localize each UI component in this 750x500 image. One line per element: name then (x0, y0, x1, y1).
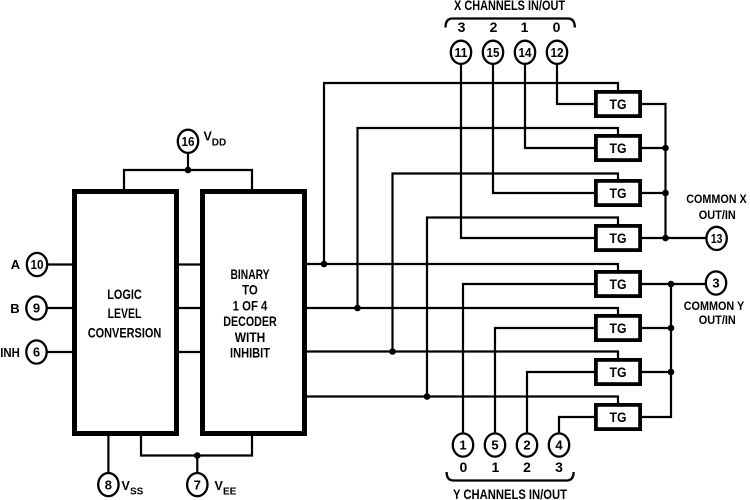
svg-text:TG: TG (610, 96, 627, 112)
wire: X bus segment (664, 193, 666, 238)
power VSS pin 8 (98, 473, 118, 496)
transmission gate TG8 (596, 405, 640, 429)
svg-text:7: 7 (194, 477, 201, 492)
wire: TG2 output stub (642, 147, 666, 149)
svg-text:0: 0 (460, 459, 468, 475)
power VDD pin 16 (178, 130, 198, 153)
wire: pin 4 to TG input (559, 417, 594, 434)
junction: decoder output 3 branch (424, 393, 431, 400)
junction: Y bus at TG7 (668, 369, 675, 376)
wire: logic block to decoder (A level) (179, 263, 200, 265)
wire: branch decoder output 3 up to X TG4 control (427, 218, 618, 397)
wire: TG5 output to pin 3 (642, 283, 706, 285)
svg-text:BINARY: BINARY (231, 266, 270, 282)
svg-text:2: 2 (523, 438, 530, 453)
wire: TG4 output stub (642, 237, 666, 239)
pin 15 (X channel) (483, 41, 503, 64)
wire: VEE rail stub to pin 7 (196, 456, 198, 474)
wire: pin 12 to TG input (557, 64, 594, 104)
transmission gate TG1 (596, 92, 640, 116)
junction: X bus at TG3 (662, 190, 669, 197)
wire: TG1 output to X bus (642, 104, 666, 148)
pin 11 (X channel) (451, 41, 471, 64)
svg-text:COMMON Y: COMMON Y (684, 299, 745, 313)
svg-text:WITH: WITH (235, 329, 266, 345)
wire: pin 2 to TG input (527, 372, 594, 434)
svg-text:1: 1 (521, 19, 529, 35)
wire: TG7 output stub (642, 371, 671, 373)
wire: TG6 output stub (642, 327, 671, 329)
wire: branch decoder output 1 up to X TG2 control (358, 128, 619, 308)
wire: pin 15 to TG input (493, 64, 594, 193)
svg-text:TG: TG (610, 364, 627, 380)
pin 13 (COMMON X) (706, 227, 726, 250)
transmission gate TG4 (596, 226, 640, 250)
wire: logic block to decoder (INH level) (179, 351, 200, 353)
svg-text:1: 1 (459, 438, 466, 453)
svg-text:COMMON X: COMMON X (686, 192, 747, 206)
junction: decoder output 1 branch (354, 305, 361, 312)
wire: X bus segment (664, 148, 666, 193)
wire: Y bus segment (670, 284, 672, 328)
svg-text:A: A (11, 257, 21, 272)
wire: decoder output 0 row to Y TG5 control (307, 264, 618, 270)
wire: pin 1 to TG input (463, 284, 594, 434)
wire: pin 10 to logic block (A) (47, 263, 72, 265)
wire: decoder output 1 row to Y TG6 control (307, 308, 618, 314)
wire: pin 11 to TG input (461, 64, 594, 238)
wire: branch decoder output 0 up to X TG1 control (324, 83, 618, 264)
transmission gate TG7 (596, 360, 640, 384)
junction: decoder output 0 branch (321, 261, 328, 268)
wire: pin 5 to TG input (495, 328, 594, 434)
svg-text:EE: EE (223, 487, 237, 498)
bracket: Y channels group (447, 472, 574, 481)
transmission gate TG6 (596, 316, 640, 340)
junction: X bus at TG4 (662, 235, 669, 242)
svg-text:B: B (10, 301, 19, 316)
svg-text:0: 0 (553, 19, 561, 35)
transmission gate TG2 (596, 136, 640, 160)
wire: VDD pin to rail (187, 153, 189, 170)
svg-text:INH: INH (0, 345, 20, 360)
wire: Y bus segment and TG8 output (642, 372, 671, 417)
svg-text:6: 6 (33, 345, 40, 360)
svg-text:LEVEL: LEVEL (108, 305, 142, 321)
block: BINARY TO 1 OF 4 DECODER WITH INHIBIT (203, 192, 305, 434)
svg-text:10: 10 (31, 257, 44, 272)
wire: Y bus segment (670, 328, 672, 372)
svg-text:TG: TG (610, 230, 627, 246)
svg-text:3: 3 (458, 19, 466, 35)
pin 4 (Y channel) (549, 433, 569, 456)
pin 2 (Y channel) (517, 433, 537, 456)
svg-text:X CHANNELS IN/OUT: X CHANNELS IN/OUT (454, 0, 565, 13)
pin 5 (Y channel) (485, 433, 505, 456)
svg-text:1 OF 4: 1 OF 4 (233, 297, 268, 313)
pin 10 (A) (27, 253, 47, 276)
wire: pin 6 to logic block (INH) (47, 351, 72, 353)
svg-text:14: 14 (519, 45, 533, 60)
svg-text:CONVERSION: CONVERSION (88, 324, 162, 340)
svg-text:1: 1 (492, 459, 500, 475)
svg-text:TG: TG (610, 140, 627, 156)
svg-text:5: 5 (491, 438, 498, 453)
block: LOGIC LEVEL CONVERSION (75, 192, 177, 434)
svg-text:11: 11 (455, 45, 468, 60)
wire: VDD rail to both block tops (124, 170, 252, 189)
pin 14 (X channel) (515, 41, 535, 64)
junction: decoder output 2 branch (389, 348, 396, 355)
svg-text:2: 2 (523, 459, 531, 475)
wire: VEE rail to both block bottoms (141, 436, 252, 456)
wire: pin 14 to TG input (525, 64, 594, 148)
svg-text:15: 15 (487, 45, 500, 60)
svg-text:3: 3 (555, 459, 563, 475)
svg-text:TO: TO (242, 282, 258, 298)
pin 3 (COMMON Y) (706, 271, 726, 294)
transmission gate TG5 (596, 272, 640, 296)
svg-text:3: 3 (712, 276, 719, 291)
svg-text:INHIBIT: INHIBIT (230, 345, 270, 361)
svg-text:9: 9 (33, 301, 40, 316)
junction: Y bus at TG6 (668, 325, 675, 332)
junction: VDD rail (185, 167, 192, 174)
svg-text:TG: TG (610, 185, 627, 201)
pin 12 (X channel) (547, 41, 567, 64)
pin 1 (Y channel) (453, 433, 473, 456)
svg-text:LOGIC: LOGIC (107, 286, 142, 302)
svg-text:12: 12 (551, 45, 564, 60)
svg-text:16: 16 (182, 134, 195, 149)
svg-text:SS: SS (130, 487, 144, 498)
svg-text:OUT/IN: OUT/IN (699, 313, 736, 327)
power VEE pin 7 (187, 473, 207, 496)
wire: logic block to VSS pin (107, 436, 109, 473)
svg-text:TG: TG (610, 320, 627, 336)
svg-text:DECODER: DECODER (223, 313, 277, 329)
bracket: X channels group (446, 19, 575, 28)
pin 6 (INH) (26, 340, 46, 363)
svg-text:DD: DD (212, 138, 226, 149)
junction: VEE rail (194, 452, 201, 459)
svg-text:TG: TG (610, 276, 627, 292)
svg-text:OUT/IN: OUT/IN (699, 208, 736, 222)
wire: X bus to pin 13 (666, 237, 707, 239)
junction: X bus at TG2 (662, 145, 669, 152)
svg-text:8: 8 (105, 477, 112, 492)
svg-text:4: 4 (555, 438, 563, 453)
pin 9 (B) (26, 296, 46, 319)
wire: decoder output 3 row to Y TG8 control (307, 397, 618, 404)
wire: decoder output 2 row to Y TG7 control (307, 352, 618, 359)
wire: branch decoder output 2 up to X TG3 control (393, 174, 619, 352)
wire: pin 9 to logic block (B) (47, 307, 72, 309)
svg-text:TG: TG (610, 409, 627, 425)
svg-text:13: 13 (711, 231, 723, 246)
transmission gate TG3 (596, 181, 640, 205)
junction: Y bus at TG5 (668, 281, 675, 288)
svg-text:Y CHANNELS IN/OUT: Y CHANNELS IN/OUT (453, 486, 567, 500)
wire: logic block to decoder (B level) (179, 307, 200, 309)
wire: TG3 output stub (642, 192, 666, 194)
svg-text:2: 2 (490, 19, 498, 35)
